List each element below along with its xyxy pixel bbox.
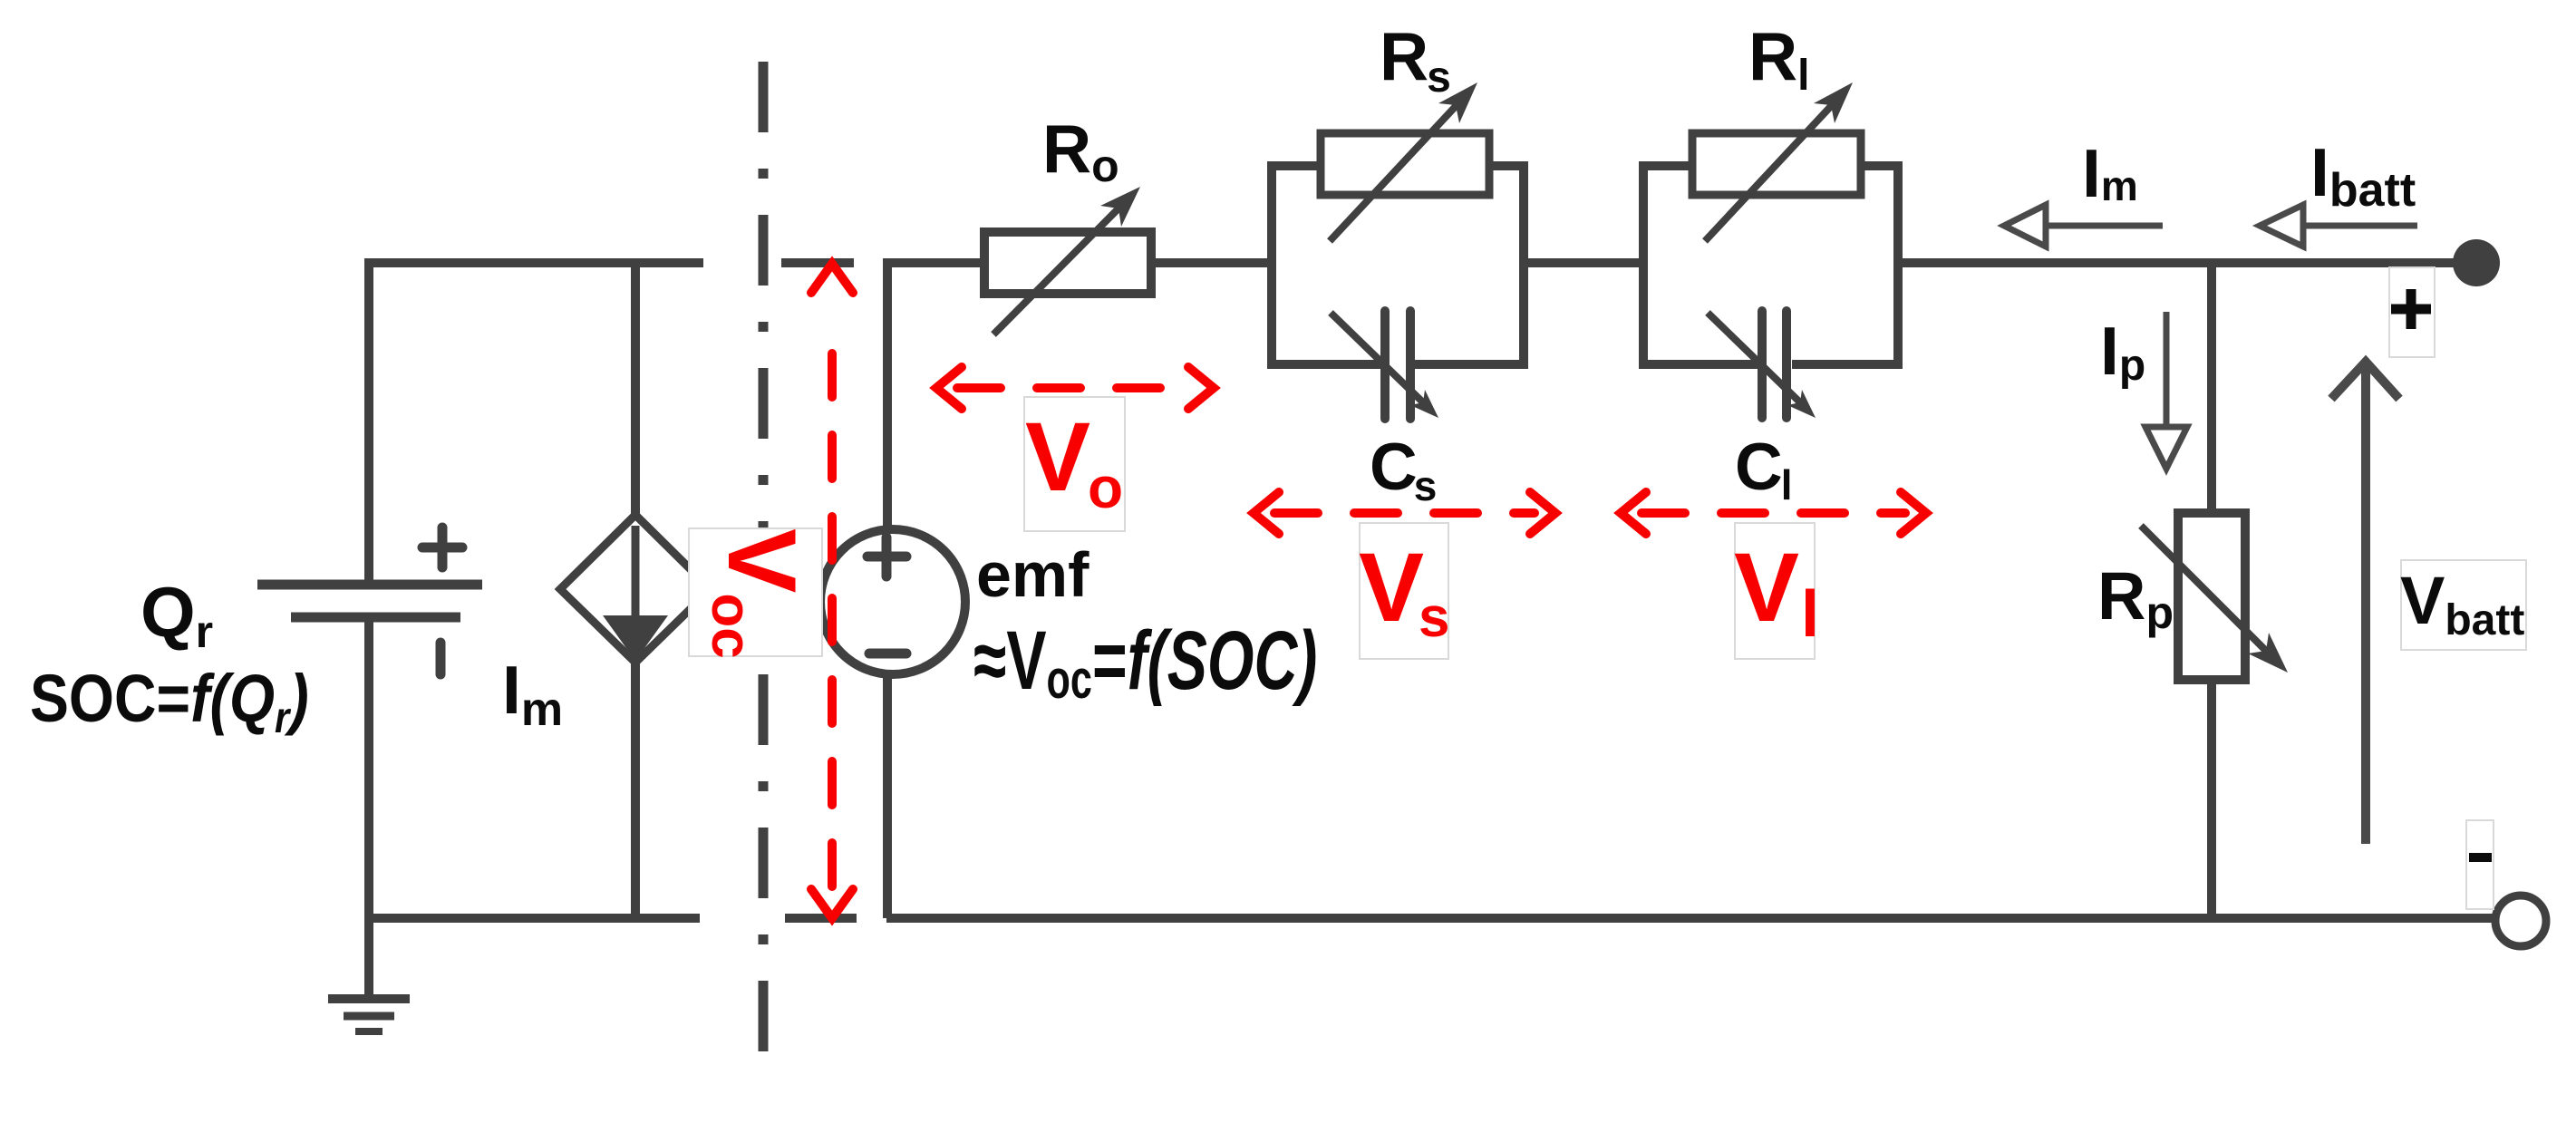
current source arrowhead	[603, 615, 668, 661]
current annotation arrows	[2004, 205, 2417, 469]
capacitor C_s plates	[1385, 311, 1410, 419]
resistor R_p body	[2178, 513, 2245, 680]
wire below diamond	[631, 663, 640, 918]
wire battery bottom	[364, 617, 373, 918]
wire rail stub bottom (at boundary)	[785, 914, 857, 923]
V_o label box	[1024, 397, 1125, 531]
red V_s measure arrow	[1254, 492, 1555, 534]
label SOC=f(Q_r)	[30, 661, 309, 742]
R_l arrowhead	[1814, 82, 1853, 123]
svg-text:emf: emf	[976, 539, 1089, 610]
capacitor C_l variable arrow	[1708, 313, 1801, 403]
resistor R_p variable arrow	[2141, 526, 2267, 652]
V_oc label box	[689, 528, 822, 656]
wire to ground	[364, 918, 373, 995]
wire R_o to R_s	[1151, 258, 1272, 267]
resistor R_o body	[984, 232, 1151, 294]
wire bottom rail	[886, 914, 2495, 923]
svg-text:≈Voc=f(SOC): ≈Voc=f(SOC)	[973, 613, 1317, 711]
wire top rail right of boundary	[886, 258, 984, 267]
capacitor C_l plates	[1762, 311, 1787, 418]
battery Q_r plate top	[257, 580, 482, 590]
battery minus tick	[436, 643, 446, 674]
I_batt arrow	[2303, 223, 2417, 229]
capacitor C_s variable arrow	[1331, 313, 1424, 403]
wire battery top	[364, 258, 373, 585]
terminal plus label box	[2389, 267, 2435, 357]
red V_o measure arrow	[936, 367, 1214, 409]
label approx V_oc=f(SOC)	[973, 613, 1317, 711]
RC pair R_s C_s frame	[1272, 166, 1524, 364]
wire R_p to bottom rail	[2207, 680, 2216, 918]
resistor R_l body	[1692, 133, 1861, 195]
current source arrow shaft	[632, 526, 640, 620]
I_p arrow	[2164, 312, 2170, 427]
wire R_s to R_l	[1524, 258, 1643, 267]
battery Q_r plate bottom	[291, 613, 460, 623]
R_p arrowhead	[2248, 633, 2288, 673]
wire diamond drop	[631, 263, 640, 544]
V_s label box	[1360, 523, 1448, 659]
label V_oc (red, rotated)	[700, 528, 817, 659]
wire emf bottom drop	[883, 673, 892, 918]
ground	[328, 994, 410, 1003]
R_s arrowhead	[1438, 82, 1477, 123]
terminal minus label box	[2466, 820, 2494, 909]
emf plus	[867, 537, 906, 576]
wire bottom-left rail	[365, 914, 700, 923]
resistor R_s body	[1321, 133, 1489, 195]
terminal minus sign	[2469, 853, 2492, 862]
wire rail stub top (at boundary)	[781, 258, 854, 267]
node terminal plus (filled dot)	[2453, 239, 2500, 286]
V_l label box	[1735, 523, 1815, 659]
svg-text:SOC=f(Qr): SOC=f(Qr)	[30, 661, 309, 742]
wire R_l to terminal	[1898, 258, 2476, 267]
voltage source emf circle	[820, 529, 965, 674]
resistor R_l variable arrow	[1705, 104, 1833, 241]
red V_oc measure arrow	[811, 264, 853, 918]
wire emf top drop	[883, 258, 892, 531]
RC pair R_l C_l frame	[1643, 166, 1898, 364]
V_batt label box	[2401, 560, 2526, 650]
resistor R_s variable arrow	[1330, 104, 1457, 241]
battery plus sign	[422, 528, 462, 567]
I_m arrow	[2046, 223, 2163, 229]
boundary dash-dot line	[759, 62, 769, 1088]
terminal minus (open circle)	[2495, 895, 2546, 946]
C_s arrowhead	[1410, 390, 1438, 418]
resistor R_o variable arrow	[993, 208, 1119, 334]
wire junction drop to R_p	[2207, 263, 2216, 513]
red V_l measure arrow	[1621, 492, 1926, 534]
V_batt arrow	[2331, 361, 2399, 844]
terminal plus sign	[2391, 289, 2431, 329]
wire top-left rail	[365, 258, 703, 267]
C_l arrowhead	[1787, 390, 1816, 418]
filled arrowheads for variable arrows	[1100, 82, 2288, 673]
R_o arrowhead	[1100, 187, 1140, 227]
current source I_m diamond	[560, 515, 711, 663]
emf minus	[869, 649, 906, 659]
label boxes	[689, 267, 2526, 909]
